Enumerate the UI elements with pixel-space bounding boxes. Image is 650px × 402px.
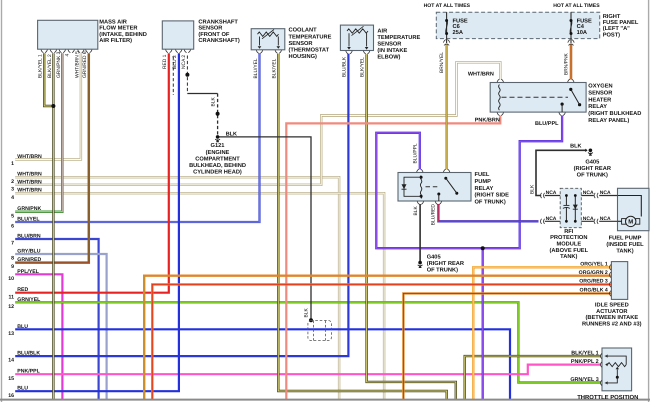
svg-text:GRN/RED 6: GRN/RED 6 xyxy=(82,51,88,78)
svg-text:NCA: NCA xyxy=(583,216,594,222)
svg-text:MASS AIR: MASS AIR xyxy=(99,19,127,25)
svg-text:BLU/BRN: BLU/BRN xyxy=(17,234,41,240)
svg-text:BLU/YEL: BLU/YEL xyxy=(253,58,259,78)
svg-text:CYLINDER HEAD): CYLINDER HEAD) xyxy=(193,169,242,176)
svg-text:BLK/YEL: BLK/YEL xyxy=(272,58,278,78)
svg-text:WHT/BRN: WHT/BRN xyxy=(17,154,42,160)
svg-text:RIGHT: RIGHT xyxy=(603,14,621,20)
svg-text:HOT AT ALL TIMES: HOT AT ALL TIMES xyxy=(553,3,600,9)
svg-text:FUSE PANEL: FUSE PANEL xyxy=(603,20,639,26)
svg-text:PNK/BRN: PNK/BRN xyxy=(475,117,500,123)
svg-text:9: 9 xyxy=(11,264,14,270)
svg-text:OXYGEN: OXYGEN xyxy=(588,84,612,90)
svg-text:SENSOR: SENSOR xyxy=(588,90,612,96)
svg-text:RFI: RFI xyxy=(564,229,574,235)
svg-text:BLU: BLU xyxy=(17,386,28,392)
svg-text:BULKHEAD, BEHIND: BULKHEAD, BEHIND xyxy=(189,163,246,169)
svg-text:GRN/PNK 3: GRN/PNK 3 xyxy=(56,51,62,78)
svg-text:BLU/PPL: BLU/PPL xyxy=(535,121,559,127)
svg-text:TEMPERATURE: TEMPERATURE xyxy=(377,35,420,41)
svg-text:(ENGINE: (ENGINE xyxy=(206,149,230,156)
svg-text:BLU/BLK: BLU/BLK xyxy=(341,56,347,77)
svg-text:SENSOR: SENSOR xyxy=(377,42,401,48)
svg-text:SENSOR: SENSOR xyxy=(289,41,313,47)
svg-text:7: 7 xyxy=(11,241,14,247)
svg-text:G405: G405 xyxy=(427,254,441,260)
svg-text:CRANKSHAFT: CRANKSHAFT xyxy=(198,19,238,25)
svg-text:ORG/YEL 1: ORG/YEL 1 xyxy=(580,262,608,268)
svg-text:WHT/BRN: WHT/BRN xyxy=(17,188,42,194)
svg-text:OF TRUNK): OF TRUNK) xyxy=(475,198,506,205)
svg-text:WHT/BRN: WHT/BRN xyxy=(17,172,42,178)
svg-text:RELAY PANEL): RELAY PANEL) xyxy=(588,117,629,124)
svg-text:BLU/BLK: BLU/BLK xyxy=(17,351,40,357)
svg-text:(IN INTAKE: (IN INTAKE xyxy=(377,47,407,54)
svg-text:BRN/YEL: BRN/YEL xyxy=(439,52,445,73)
svg-text:BLK: BLK xyxy=(211,97,217,107)
svg-text:BLK: BLK xyxy=(570,144,581,150)
svg-text:TANK): TANK) xyxy=(560,253,577,260)
svg-text:RUNNERS #2 AND #3): RUNNERS #2 AND #3) xyxy=(582,320,642,327)
svg-text:HOT AT ALL TIMES: HOT AT ALL TIMES xyxy=(424,3,471,9)
svg-text:THROTTLE POSITION: THROTTLE POSITION xyxy=(577,394,638,401)
svg-text:POST): POST) xyxy=(603,31,620,38)
svg-text:AIR: AIR xyxy=(377,29,387,35)
svg-text:(ABOVE FUEL: (ABOVE FUEL xyxy=(550,247,589,254)
svg-text:AIR FILTER): AIR FILTER) xyxy=(99,37,132,44)
svg-text:HEATER: HEATER xyxy=(588,97,611,103)
svg-text:12: 12 xyxy=(8,304,14,310)
svg-text:RELAY: RELAY xyxy=(475,186,494,192)
svg-text:BLU: BLU xyxy=(17,324,28,330)
svg-text:M: M xyxy=(628,219,633,226)
svg-text:5: 5 xyxy=(11,213,14,219)
svg-text:FLOW METER: FLOW METER xyxy=(99,26,137,32)
svg-text:ACTUATOR: ACTUATOR xyxy=(596,309,627,315)
svg-text:IDLE SPEED: IDLE SPEED xyxy=(595,303,629,309)
svg-text:(FRONT OF: (FRONT OF xyxy=(198,31,229,38)
svg-text:WHT/BRN 5: WHT/BRN 5 xyxy=(74,51,80,78)
svg-text:NCA: NCA xyxy=(546,190,557,196)
svg-text:TANK): TANK) xyxy=(616,248,633,255)
svg-text:(INSIDE FUEL: (INSIDE FUEL xyxy=(606,241,644,248)
svg-text:PNK/PPL 2: PNK/PPL 2 xyxy=(571,359,599,365)
svg-text:MODULE: MODULE xyxy=(556,242,581,248)
svg-text:G405: G405 xyxy=(585,160,599,166)
svg-text:WHT/BRN: WHT/BRN xyxy=(468,72,494,78)
svg-text:BLK/YEL 2: BLK/YEL 2 xyxy=(47,54,53,78)
svg-text:NCA: NCA xyxy=(600,190,611,196)
svg-text:ELBOW): ELBOW) xyxy=(377,53,400,60)
svg-text:25A: 25A xyxy=(453,30,463,36)
svg-text:11: 11 xyxy=(9,294,15,300)
svg-text:(RIGHT BULKHEAD: (RIGHT BULKHEAD xyxy=(588,110,641,117)
svg-text:BLU/PPL: BLU/PPL xyxy=(412,143,418,163)
svg-text:GRN/YEL: GRN/YEL xyxy=(17,297,41,303)
svg-text:4: 4 xyxy=(11,195,14,201)
svg-text:COOLANT: COOLANT xyxy=(289,28,318,34)
svg-text:NCA: NCA xyxy=(600,216,611,222)
svg-text:4: 4 xyxy=(65,54,71,57)
svg-text:ORG/RED 3: ORG/RED 3 xyxy=(579,279,608,285)
svg-text:OF TRUNK): OF TRUNK) xyxy=(577,171,608,178)
svg-text:BLK: BLK xyxy=(303,308,309,318)
svg-text:BLK: BLK xyxy=(413,206,419,216)
svg-text:13: 13 xyxy=(8,331,14,337)
svg-text:RELAY: RELAY xyxy=(588,104,607,110)
svg-text:RED 1: RED 1 xyxy=(162,54,168,69)
svg-text:(BETWEEN INTAKE: (BETWEEN INTAKE xyxy=(585,314,638,321)
svg-text:15: 15 xyxy=(8,376,14,382)
svg-text:COMPARTMENT: COMPARTMENT xyxy=(195,156,240,162)
svg-text:G121: G121 xyxy=(211,143,225,149)
svg-text:GRN/RED: GRN/RED xyxy=(17,257,41,263)
svg-text:BLU/YEL: BLU/YEL xyxy=(17,217,40,223)
svg-text:10: 10 xyxy=(8,276,14,282)
svg-text:(RIGHT REAR: (RIGHT REAR xyxy=(574,165,611,172)
svg-text:RED: RED xyxy=(17,287,28,293)
svg-text:GRY/BLU: GRY/BLU xyxy=(17,249,40,255)
svg-text:(INTAKE, BEHIND: (INTAKE, BEHIND xyxy=(99,31,147,38)
svg-text:FUEL: FUEL xyxy=(475,172,490,178)
svg-text:BLK/YEL 1: BLK/YEL 1 xyxy=(38,54,44,78)
svg-text:OF TRUNK): OF TRUNK) xyxy=(427,267,458,274)
svg-text:BRN/PNK: BRN/PNK xyxy=(563,53,569,75)
svg-text:NCA 2: NCA 2 xyxy=(181,55,187,69)
svg-text:WHT/BRN: WHT/BRN xyxy=(17,179,42,185)
svg-text:TEMPERATURE: TEMPERATURE xyxy=(289,34,332,40)
svg-text:6: 6 xyxy=(11,224,14,230)
svg-text:NCA: NCA xyxy=(546,216,557,222)
svg-text:PPL/YEL: PPL/YEL xyxy=(17,269,39,275)
svg-text:3: 3 xyxy=(11,186,14,192)
svg-text:PROTECTION: PROTECTION xyxy=(550,235,587,241)
svg-text:ORG/GRN 2: ORG/GRN 2 xyxy=(579,270,608,276)
svg-text:(LEFT "A": (LEFT "A" xyxy=(603,25,630,32)
svg-text:BLK/YEL 1: BLK/YEL 1 xyxy=(571,350,598,356)
svg-text:2: 2 xyxy=(11,179,14,185)
svg-text:BLK/YEL: BLK/YEL xyxy=(359,57,365,77)
svg-text:GRN/YEL 3: GRN/YEL 3 xyxy=(570,377,598,383)
svg-text:(THERMOSTAT: (THERMOSTAT xyxy=(289,47,330,54)
svg-text:BLU 3: BLU 3 xyxy=(172,55,178,69)
svg-text:SENSOR: SENSOR xyxy=(198,26,222,32)
svg-text:PUMP: PUMP xyxy=(475,179,492,185)
svg-text:HOUSING): HOUSING) xyxy=(289,53,318,60)
svg-text:(RIGHT REAR: (RIGHT REAR xyxy=(427,260,464,267)
svg-text:8: 8 xyxy=(11,256,14,262)
svg-text:(RIGHT SIDE: (RIGHT SIDE xyxy=(475,192,510,199)
svg-text:FUEL PUMP: FUEL PUMP xyxy=(609,236,642,242)
svg-text:NCA: NCA xyxy=(583,190,594,196)
svg-text:GRN/PNK: GRN/PNK xyxy=(17,206,41,212)
svg-text:16: 16 xyxy=(8,393,14,399)
svg-text:1: 1 xyxy=(11,161,14,167)
svg-text:CRANKSHAFT): CRANKSHAFT) xyxy=(198,37,239,44)
svg-text:ORG/BLK 4: ORG/BLK 4 xyxy=(580,288,608,294)
svg-text:BLK: BLK xyxy=(226,131,237,137)
svg-text:10A: 10A xyxy=(577,30,587,36)
svg-text:PNK/PPL: PNK/PPL xyxy=(17,369,40,375)
svg-text:14: 14 xyxy=(8,358,14,364)
svg-text:BLK: BLK xyxy=(529,184,535,194)
svg-text:BLU/RED: BLU/RED xyxy=(430,204,436,226)
